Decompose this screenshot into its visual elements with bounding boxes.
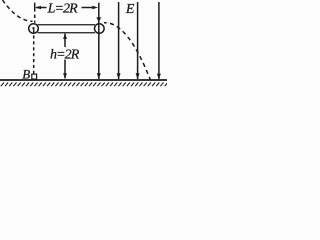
dashed extension to wheel top: [34, 15, 36, 23]
background: [0, 0, 167, 90]
bottom arrowhead field line 4: [157, 74, 161, 80]
L dim left arrowhead: [35, 6, 41, 10]
svg-text:h=2R: h=2R: [50, 47, 80, 62]
field line through right wheel (also right extension of L dim): [98, 3, 100, 79]
dashed vertical drop line below left wheel: [33, 30, 35, 74]
field line 2: [118, 2, 120, 79]
left wheel: [29, 24, 39, 34]
right wheel: [95, 24, 105, 34]
block B on ground: [32, 74, 37, 79]
falling dashed trajectory (right): [104, 23, 151, 80]
h dimension line lower segment: [64, 60, 66, 79]
L dimension right arrow line: [82, 7, 95, 9]
bottom arrowhead field line 2: [117, 73, 121, 79]
h dim down arrowhead: [63, 73, 67, 79]
h dimension line upper segment: [64, 34, 66, 48]
svg-text:L=2R: L=2R: [47, 2, 79, 17]
incoming dashed trajectory (top-left): [3, 0, 33, 21]
label h=2R with white mask: [49, 47, 80, 59]
field line 4: [158, 2, 160, 79]
h dim up arrowhead: [63, 34, 67, 40]
svg-text:E: E: [125, 2, 135, 17]
rod bottom line: [38, 32, 96, 34]
arrowhead on field line above right wheel: [96, 17, 101, 22]
L dimension left extension tick: [34, 3, 36, 12]
L dim right arrowhead: [92, 6, 98, 10]
svg-text:B: B: [22, 67, 30, 82]
L dimension left arrow line: [36, 7, 47, 9]
field line 3: [137, 2, 139, 79]
ground hatching: [1, 83, 168, 87]
ground line: [0, 79, 167, 81]
bottom arrowhead field line 1: [97, 73, 101, 79]
bottom arrowhead field line 3: [136, 73, 140, 79]
rod top line: [38, 24, 96, 26]
axle dot of left wheel: [32, 27, 34, 29]
